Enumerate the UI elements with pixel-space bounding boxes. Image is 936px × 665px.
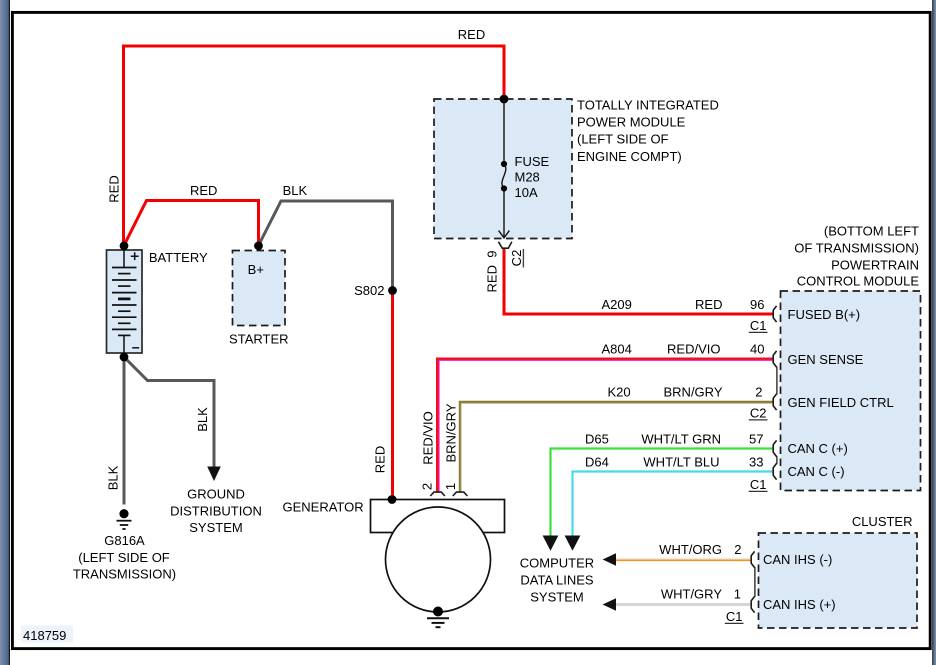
svg-text:BLK: BLK (283, 183, 308, 198)
arrow gray to computer data lines (603, 598, 616, 611)
wire RED S802 to generator (391, 291, 394, 500)
svg-text:BRN/GRY: BRN/GRY (444, 403, 459, 462)
svg-text:FUSE: FUSE (515, 154, 550, 169)
wire RED/VIO generator pin 2 to PCM pin 40 (438, 359, 773, 492)
node battery positive junction (120, 241, 129, 250)
wire BLK battery to ground distribution (124, 357, 214, 468)
svg-text:CAN IHS (-): CAN IHS (-) (763, 552, 832, 567)
connector body line C2 group (776, 367, 778, 395)
svg-text:2: 2 (420, 483, 435, 490)
svg-text:57: 57 (749, 432, 763, 447)
svg-text:STARTER: STARTER (229, 332, 288, 347)
svg-text:FUSED B(+): FUSED B(+) (788, 307, 861, 322)
svg-text:2: 2 (734, 542, 741, 557)
pin connector cluster pin 1 (751, 596, 754, 612)
svg-text:(LEFT SIDE OF: (LEFT SIDE OF (577, 132, 669, 147)
window edge right strip (932, 0, 933, 665)
svg-text:ENGINE COMPT): ENGINE COMPT) (577, 149, 682, 164)
svg-text:33: 33 (749, 455, 763, 470)
svg-text:1: 1 (734, 587, 741, 602)
svg-text:418759: 418759 (23, 628, 66, 643)
wire WHT/LT GRN PCM pin 57 to data lines (551, 449, 773, 536)
svg-text:WHT/GRY: WHT/GRY (661, 587, 722, 602)
svg-text:BLK: BLK (106, 465, 121, 490)
svg-text:G816A: G816A (104, 533, 145, 548)
svg-text:GEN SENSE: GEN SENSE (788, 352, 864, 367)
wire WHT/LT BLU PCM pin 33 to data lines (573, 472, 773, 536)
connector body line cluster C1 group (754, 567, 756, 597)
wire WHT/ORG cluster to data lines (616, 558, 752, 560)
svg-text:40: 40 (750, 342, 764, 357)
svg-text:TOTALLY INTEGRATED: TOTALLY INTEGRATED (577, 98, 719, 113)
svg-text:(BOTTOM LEFT: (BOTTOM LEFT (824, 224, 919, 239)
wire WHT/GRY cluster to data lines (616, 603, 752, 606)
svg-text:CAN IHS (+): CAN IHS (+) (763, 597, 836, 612)
svg-text:D65: D65 (585, 432, 609, 447)
svg-text:10A: 10A (515, 185, 538, 200)
svg-text:BATTERY: BATTERY (149, 250, 208, 265)
svg-text:WHT/LT BLU: WHT/LT BLU (643, 455, 719, 470)
ground generator case ground (427, 607, 449, 628)
svg-text:POWERTRAIN: POWERTRAIN (831, 257, 919, 272)
svg-text:SYSTEM: SYSTEM (530, 590, 583, 605)
svg-text:M28: M28 (515, 170, 540, 185)
svg-text:RED: RED (190, 183, 217, 198)
pin connector PCM pin 40 (773, 351, 776, 367)
fuse M28 inside TIPM (499, 99, 510, 238)
svg-text:C2: C2 (509, 250, 524, 267)
svg-text:RED 9: RED 9 (485, 251, 500, 293)
svg-text:COMPUTER: COMPUTER (520, 556, 594, 571)
svg-text:OF TRANSMISSION): OF TRANSMISSION) (794, 241, 919, 256)
wire BLK starter B+ to splice S802 (259, 201, 393, 291)
svg-text:GEN FIELD CTRL: GEN FIELD CTRL (788, 395, 894, 410)
pin connector cluster pin 2 (751, 551, 754, 567)
svg-text:RED/VIO: RED/VIO (421, 411, 436, 464)
svg-text:WHT/ORG: WHT/ORG (659, 542, 722, 557)
PCM module box (781, 291, 921, 491)
wire RED A209 fuse to PCM pin 96 (504, 249, 773, 315)
pin connector PCM pin 33 (773, 463, 776, 479)
svg-text:RED/VIO: RED/VIO (667, 342, 720, 357)
wire BLK battery to ground G816A (123, 357, 126, 505)
svg-text:CLUSTER: CLUSTER (852, 514, 913, 529)
node TIPM feed junction (500, 95, 509, 104)
node generator B+ dot redraw (388, 495, 397, 504)
arrow cyan to computer data lines (565, 536, 581, 551)
generator GENERATOR (371, 500, 505, 613)
svg-text:A209: A209 (602, 297, 632, 312)
svg-text:DISTRIBUTION: DISTRIBUTION (170, 504, 262, 519)
svg-text:(LEFT SIDE OF: (LEFT SIDE OF (78, 550, 170, 565)
svg-text:RED: RED (107, 175, 122, 202)
svg-text:D64: D64 (585, 455, 609, 470)
node splice S802 (388, 286, 397, 295)
svg-text:S802: S802 (354, 283, 384, 298)
svg-text:DATA LINES: DATA LINES (520, 573, 594, 588)
svg-text:K20: K20 (608, 385, 631, 400)
svg-text:A804: A804 (602, 342, 632, 357)
svg-text:GENERATOR: GENERATOR (283, 500, 364, 515)
svg-text:1: 1 (443, 483, 458, 490)
pin connector PCM pin 2 (773, 394, 776, 410)
svg-text:RED: RED (458, 27, 485, 42)
wire BRN/GRY generator pin 1 to PCM pin 2 (460, 402, 773, 492)
svg-text:C2: C2 (750, 406, 767, 421)
svg-text:RED: RED (695, 297, 722, 312)
svg-text:SYSTEM: SYSTEM (189, 520, 242, 535)
svg-text:GROUND: GROUND (187, 487, 245, 502)
cluster module box (759, 533, 918, 628)
svg-text:WHT/LT GRN: WHT/LT GRN (641, 432, 721, 447)
svg-text:CAN C (-): CAN C (-) (788, 464, 845, 479)
wire RED battery to TIPM (top run) (124, 46, 505, 246)
arrow to ground distribution system (207, 467, 221, 482)
arrow green to computer data lines (543, 536, 559, 551)
svg-text:C1: C1 (750, 318, 767, 333)
TIPM module box (434, 99, 572, 239)
pin cup generator pin 1 (453, 492, 468, 496)
svg-text:BRN/GRY: BRN/GRY (664, 385, 723, 400)
svg-text:BLK: BLK (195, 407, 210, 432)
svg-text:RED: RED (373, 446, 388, 473)
arrow orange to computer data lines (603, 553, 616, 566)
battery BATTERY (107, 250, 143, 353)
connector body line CAN group (776, 456, 778, 464)
svg-text:TRANSMISSION): TRANSMISSION) (73, 567, 176, 582)
pin cup generator pin 2 (430, 492, 445, 496)
ground G816A (117, 509, 132, 529)
svg-text:POWER MODULE: POWER MODULE (577, 115, 686, 130)
connector C2 cup below TIPM (498, 242, 511, 249)
svg-text:2: 2 (755, 385, 762, 400)
svg-text:CAN C (+): CAN C (+) (788, 441, 848, 456)
node battery negative junction (120, 353, 129, 362)
pin connector PCM pin 96 (773, 306, 776, 322)
wire RED battery to starter B+ (124, 201, 259, 246)
svg-text:C1: C1 (726, 609, 743, 624)
svg-text:B+: B+ (248, 262, 264, 277)
label diagram number 418759 (21, 626, 73, 643)
node generator B+ junction (388, 495, 397, 504)
svg-text:CONTROL MODULE: CONTROL MODULE (797, 273, 920, 288)
svg-text:96: 96 (750, 297, 764, 312)
starter box (233, 251, 286, 326)
svg-text:C1: C1 (750, 477, 767, 492)
node starter B+ junction (254, 241, 263, 250)
pin connector PCM pin 57 (773, 440, 776, 456)
